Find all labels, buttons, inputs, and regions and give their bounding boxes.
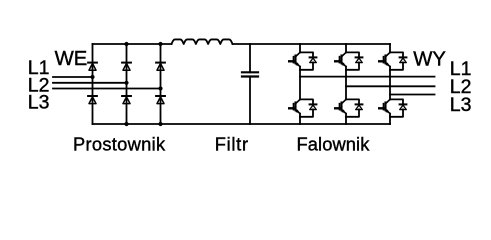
diode D4 (rectifier lower, phase L2) <box>122 96 131 104</box>
wire: input phase line L3 <box>53 88 161 90</box>
wire: inverter leg B, phase node vertical <box>345 70 347 100</box>
diode D3 (rectifier upper, phase L2) <box>122 63 131 71</box>
diode D10 (freewheel, antiparallel with Q4) <box>346 99 362 116</box>
wire: input phase line L1 <box>53 76 93 78</box>
junction: input L3 / rectifier leg 3 <box>158 86 162 90</box>
diode D12 (freewheel, antiparallel with Q6) <box>390 99 406 116</box>
diode D1 (rectifier upper, phase L1) <box>88 63 97 71</box>
junction: top bus / rectifier leg 3 <box>158 42 162 46</box>
wire: inverter leg C, phase node vertical <box>389 70 391 100</box>
diode D2 (rectifier lower, phase L1) <box>88 96 97 104</box>
wire: rectifier leg 3 vertical <box>160 44 162 124</box>
svg-text:WE: WE <box>55 48 88 70</box>
wire: inverter leg C, lower transistor to bottom bus <box>389 117 391 124</box>
wire: rectifier leg 2 vertical <box>126 44 128 124</box>
svg-text:L3: L3 <box>450 94 472 116</box>
transistor Q5 (IGBT) <box>379 52 390 69</box>
junction: top bus / rectifier leg 2 <box>124 42 128 46</box>
wire: output phase line L1 (from leg A) <box>300 76 435 78</box>
transistor Q2 (IGBT) <box>289 99 300 116</box>
wire: inverter leg B, lower transistor to bottom bus <box>345 117 347 124</box>
junction: input L1 / rectifier leg 1 <box>90 75 94 79</box>
wire: inverter leg A, lower transistor to bottom bus <box>299 117 301 124</box>
wire: output phase line L2 (from leg B) <box>346 85 435 87</box>
svg-text:Prostownik: Prostownik <box>73 134 166 155</box>
diode D7 (freewheel, antiparallel with Q1) <box>300 52 316 69</box>
wire: input phase line L2 <box>53 82 127 84</box>
junction: input L2 / rectifier leg 2 <box>124 81 128 85</box>
svg-text:L3: L3 <box>28 92 50 114</box>
diode D9 (freewheel, antiparallel with Q3) <box>346 52 362 69</box>
junction: bottom bus / rectifier leg 2 <box>124 122 128 126</box>
transistor Q6 (IGBT) <box>379 99 390 116</box>
wire: rectifier leg 1 vertical <box>92 44 94 124</box>
wire: bottom DC bus <box>93 123 391 125</box>
transistor Q1 (IGBT) <box>289 52 300 69</box>
svg-text:WY: WY <box>413 48 446 70</box>
wire: inverter leg C, top bus to upper transistor <box>389 44 391 52</box>
svg-text:Falownik: Falownik <box>297 134 371 155</box>
wire: inverter leg A, top bus to upper transistor <box>299 44 301 52</box>
wire: inverter leg A, phase node vertical <box>299 70 301 100</box>
diode D8 (freewheel, antiparallel with Q2) <box>300 99 316 116</box>
wire: top DC bus, rectifier to inductor <box>93 43 172 45</box>
wire: top DC bus, inductor to inverter <box>233 43 391 45</box>
junction: bottom bus / rectifier leg 3 <box>158 122 162 126</box>
wire: inverter leg B, top bus to upper transistor <box>345 44 347 52</box>
wire: output phase line L3 (from leg C) <box>390 94 435 96</box>
transistor Q3 (IGBT) <box>335 52 346 69</box>
diode D11 (freewheel, antiparallel with Q5) <box>390 52 406 69</box>
capacitor C (DC-link) <box>242 44 258 124</box>
diode D5 (rectifier upper, phase L3) <box>156 63 165 71</box>
diode D6 (rectifier lower, phase L3) <box>156 96 165 104</box>
svg-text:Filtr: Filtr <box>215 134 249 155</box>
transistor Q4 (IGBT) <box>335 99 346 116</box>
inductor L (DC-link filter choke) <box>172 39 233 44</box>
